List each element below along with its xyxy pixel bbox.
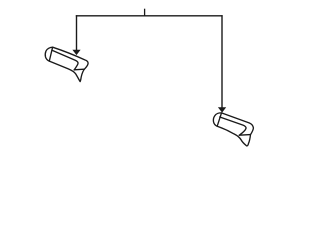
left slab inner face edge [52, 50, 78, 70]
wire: top stub tick [144, 9, 146, 16]
node: left 3D slab shape [45, 47, 88, 81]
right slab bottom facet edge [239, 134, 250, 137]
wire: left vertical drop [76, 15, 78, 50]
node: right 3D slab shape [213, 113, 253, 146]
right slab body outline [217, 113, 253, 146]
right slab end cap (ear) [213, 113, 221, 126]
wire: horizontal connector bar [76, 15, 223, 17]
arrowhead right [218, 107, 226, 112]
wire: right vertical drop [221, 15, 223, 108]
left slab body outline [49, 47, 88, 81]
left slab bottom facet edge [74, 68, 84, 71]
right slab inner face edge [220, 117, 246, 135]
left slab end cap (ear) [45, 47, 52, 61]
arrowhead left [72, 50, 80, 55]
